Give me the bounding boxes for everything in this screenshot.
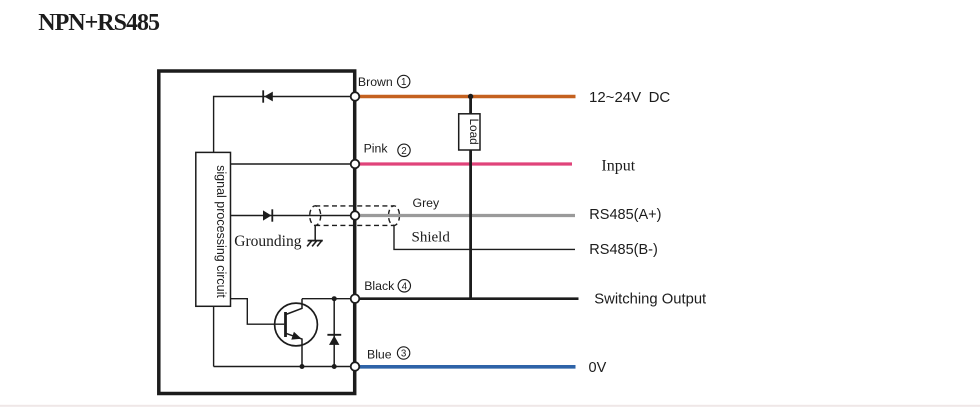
svg-text:Grey: Grey (413, 196, 440, 210)
junction: emitter on 0V rail (300, 364, 305, 369)
svg-text:RS485(B-): RS485(B-) (589, 242, 658, 258)
svg-text:Switching Output: Switching Output (594, 291, 706, 307)
wire: internal input line from U1 to pink node (231, 163, 356, 165)
label Pink pin 2 (364, 141, 411, 157)
wire: load branch (469, 97, 472, 299)
label Black pin 4 (364, 279, 410, 293)
junction: diode D3 top on collector rail (332, 296, 337, 301)
label Blue pin 3 (367, 347, 410, 362)
cable shield symbol (dashed cylinder) (310, 206, 400, 226)
wire: brown 12-24V DC (355, 95, 576, 98)
svg-text:1: 1 (401, 77, 406, 88)
load box (459, 114, 481, 150)
svg-text:4: 4 (402, 281, 408, 292)
node: grey terminal (351, 211, 360, 220)
chassis ground symbol (307, 241, 323, 247)
svg-text:Blue: Blue (367, 347, 392, 361)
svg-text:2: 2 (401, 146, 406, 157)
svg-text:Input: Input (601, 158, 635, 175)
transistor Q1 (NPN) (275, 299, 318, 367)
svg-text:Pink: Pink (364, 141, 389, 155)
wire: black switching output (355, 297, 579, 300)
wire: internal supply line from U1 top to brown node (214, 97, 355, 153)
label 12~24V DC (589, 89, 670, 106)
signal processing circuit block U1 (196, 152, 231, 306)
wire: base drive from U1 to transistor base (231, 299, 285, 325)
svg-text:Brown: Brown (358, 75, 393, 89)
node: black terminal (351, 294, 360, 303)
svg-text:3: 3 (401, 349, 407, 360)
diode D2 (on RS485 line, cathode right) (263, 209, 272, 221)
svg-text:Black: Black (364, 279, 395, 293)
junction: load branch on brown wire (468, 94, 473, 99)
wire: grey RS485(A+) (355, 214, 575, 217)
svg-text:12~24V: 12~24V (589, 89, 641, 106)
wire: U1 bottom to 0V rail (213, 306, 215, 366)
wire: internal RS485 line from U1 to grey node (231, 215, 356, 217)
svg-text:Grounding: Grounding (234, 233, 301, 250)
wire: shield RS485(B-) (394, 225, 575, 249)
flyback diode D3 (cathode up) (327, 299, 341, 367)
label Brown pin 1 (358, 75, 410, 89)
wire: internal 0V rail (214, 366, 355, 368)
sensor enclosure box (159, 71, 355, 394)
bottom hairline (0, 405, 980, 407)
node: pink terminal (351, 160, 360, 169)
junction: diode D3 bottom on 0V rail (332, 364, 337, 369)
svg-text:NPN+RS485: NPN+RS485 (38, 10, 160, 36)
diode D1 (reverse-polarity protection, cathode left) (263, 90, 273, 102)
wire: grounding stem (314, 225, 316, 240)
svg-text:0V: 0V (589, 360, 607, 376)
node: blue terminal (351, 362, 360, 371)
svg-text:Shield: Shield (412, 229, 451, 245)
wire: blue 0V (355, 365, 576, 369)
wire: collector rail to black node (302, 298, 355, 300)
node: brown terminal (351, 92, 360, 101)
svg-text:Load: Load (467, 118, 481, 144)
svg-text:DC: DC (649, 89, 671, 106)
svg-text:RS485(A+): RS485(A+) (589, 207, 661, 223)
svg-text:signal processing circuit: signal processing circuit (214, 165, 228, 298)
wire: pink input (355, 162, 572, 165)
